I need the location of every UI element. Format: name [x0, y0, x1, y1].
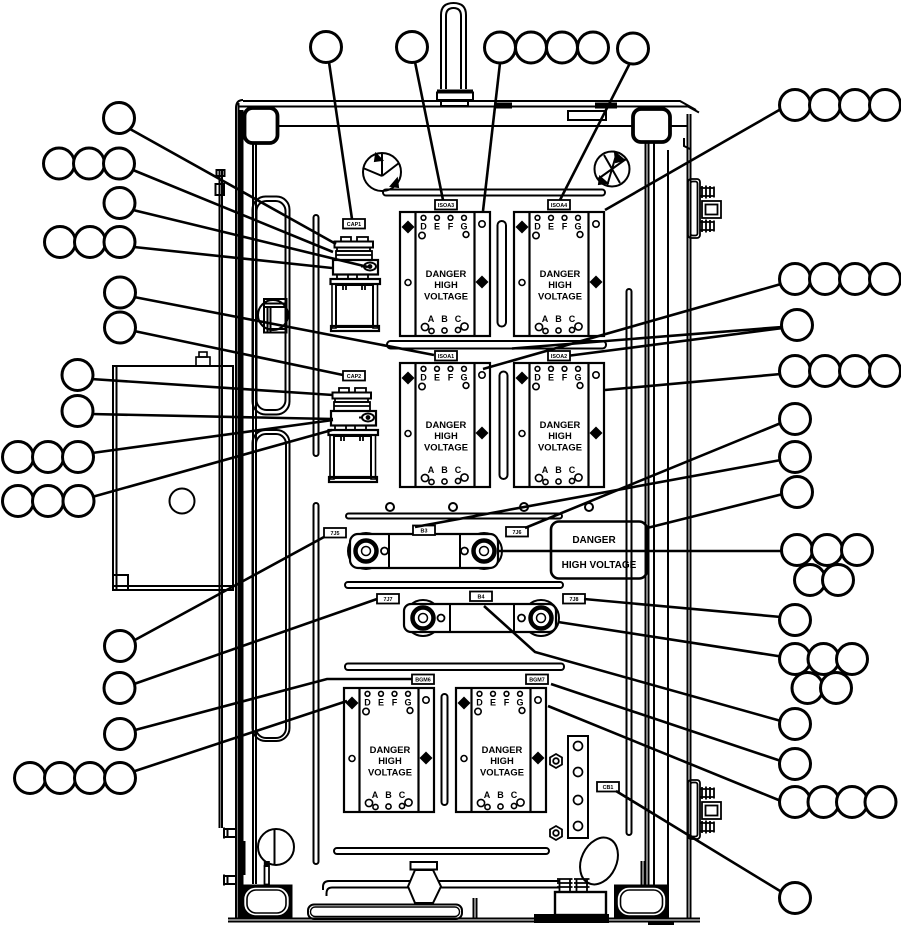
svg-text:ISOA1: ISOA1 — [438, 354, 454, 360]
svg-text:7J5: 7J5 — [331, 531, 340, 537]
svg-text:7J7: 7J7 — [384, 597, 393, 603]
svg-text:CB1: CB1 — [603, 785, 614, 791]
svg-text:CAP2: CAP2 — [347, 374, 361, 380]
svg-text:ISOA4: ISOA4 — [551, 203, 567, 209]
svg-text:CAP1: CAP1 — [347, 222, 361, 228]
svg-text:B4: B4 — [478, 595, 485, 601]
svg-text:BGM7: BGM7 — [529, 678, 545, 684]
svg-text:ISOA3: ISOA3 — [438, 203, 454, 209]
svg-text:HIGH VOLTAGE: HIGH VOLTAGE — [562, 560, 637, 571]
svg-text:B3: B3 — [421, 529, 428, 535]
svg-text:7J6: 7J6 — [513, 530, 522, 536]
svg-text:BGM6: BGM6 — [415, 678, 431, 684]
svg-text:DANGER: DANGER — [572, 535, 616, 546]
svg-text:7J8: 7J8 — [570, 597, 579, 603]
svg-text:ISOA2: ISOA2 — [551, 354, 567, 360]
